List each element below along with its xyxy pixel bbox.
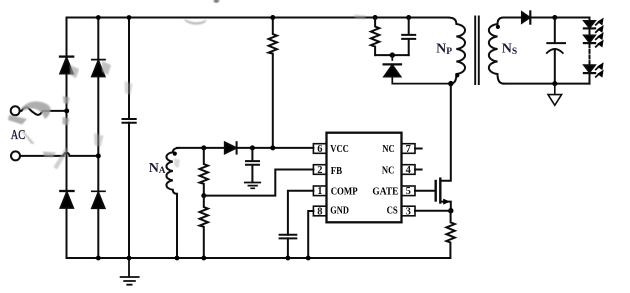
fuse F1 squiggle [20, 107, 67, 115]
wire VCC line (NA top to pin 6) [177, 147, 313, 149]
wire top rail (rectified bus) [67, 17, 449, 19]
transistor Q1 MOSFET channel bar [439, 179, 441, 203]
wire pin 7 stub [415, 148, 422, 150]
scan smudge top edge dash [214, 0, 220, 2]
svg-text:NP: NP [436, 42, 452, 57]
scan smudge under top rail [184, 19, 207, 25]
wire AC-N with crossover hop [20, 153, 98, 156]
wire bridge left leg [66, 18, 68, 259]
svg-text:NC: NC [382, 143, 394, 155]
pin 2 box [313, 165, 326, 175]
pin 4 box [402, 165, 416, 175]
wire bulk-cap leg [128, 18, 130, 259]
scan smudge diagonal at crossover [54, 148, 70, 170]
scan smudge right of D2 [102, 61, 111, 75]
node AC-N junction [96, 153, 101, 158]
scan smudge on left leg mid [63, 117, 70, 126]
pin 6 box [313, 144, 326, 154]
wire bridge right leg [97, 18, 99, 259]
svg-text:CS: CS [387, 205, 398, 217]
node FB divider at rail [201, 256, 206, 261]
capacitor output C (polarized) [547, 18, 565, 44]
diode clamp (vertical, cathode up) [384, 55, 451, 84]
node top rail at bridge right [96, 15, 101, 20]
ground secondary (open triangle) [548, 84, 562, 106]
resistor FB divider upper [200, 148, 208, 196]
node VCC at divider [201, 145, 206, 150]
scan smudge streak through AC [21, 130, 35, 144]
wire output top [530, 17, 589, 19]
scan smudge on rail near snubber [354, 15, 366, 20]
wire LED string column [589, 18, 591, 45]
wire bottom rail (primary ground bus) [67, 257, 451, 259]
wire COMP route (pin 1 to comp cap) [288, 191, 314, 235]
wire FB route (divider to pin 2) [204, 170, 314, 196]
node AC-L junction [64, 108, 69, 113]
node FB divider junction [201, 193, 206, 198]
winding NS secondary coil [489, 18, 504, 84]
svg-text:COMP: COMP [331, 186, 358, 198]
op-amp U1 controller IC body [327, 133, 402, 223]
terminal AC line input N [11, 151, 20, 160]
node COMP at rail [286, 256, 291, 261]
wire secondary top to output diode [504, 17, 522, 19]
resistor CS sense [446, 211, 454, 258]
node bottom rail at bridge right [96, 256, 101, 261]
pin 5 box [402, 186, 416, 196]
svg-text:5: 5 [406, 186, 411, 197]
node NA bottom at rail [175, 256, 180, 261]
diode bridge D3 (bottom-left) [60, 191, 73, 208]
winding NP primary coil [448, 18, 465, 84]
svg-text:7: 7 [406, 144, 411, 155]
svg-text:GND: GND [330, 204, 349, 216]
capacitor VCC C [246, 148, 259, 182]
svg-text:NS: NS [502, 42, 517, 57]
node bottom rail at bulk cap [127, 256, 132, 261]
LED D6 emission arrows [596, 36, 600, 39]
svg-text:6: 6 [317, 144, 322, 155]
transistor Q1 source connection with arrow [441, 202, 451, 211]
svg-text:NA: NA [149, 161, 166, 176]
node NP phase dot [455, 73, 459, 77]
diode bridge D1 (top-left) [60, 57, 73, 74]
capacitor bulk C (input) [123, 119, 136, 123]
resistor snubber [371, 18, 379, 56]
winding NA auxiliary coil [166, 148, 179, 258]
wire output bottom [504, 83, 590, 85]
wire GND route (pin 8 down to rail) [308, 211, 313, 258]
diode bridge D4 (bottom-right) [92, 191, 105, 208]
svg-text:2: 2 [317, 165, 322, 176]
node top rail at bulk cap [127, 15, 132, 20]
node CS junction [448, 208, 453, 213]
svg-text:FB: FB [331, 165, 343, 177]
node VCC at cap [250, 145, 255, 150]
pin 1 box [313, 186, 326, 196]
scan smudge on neutral wire [43, 152, 56, 158]
LED D7 emission arrows [596, 66, 600, 69]
pin 7 box [402, 144, 416, 154]
scan smudge on left leg upper [63, 96, 70, 104]
svg-text:3: 3 [406, 206, 411, 217]
node output cap bottom [552, 81, 557, 86]
svg-text:GATE: GATE [372, 186, 398, 198]
svg-text:4: 4 [406, 165, 412, 176]
node VCC at startup R [270, 145, 275, 150]
node primary bottom junction [448, 81, 453, 86]
transistor Q1 MOSFET gate bar [435, 181, 437, 201]
node snubber R at rail [373, 15, 378, 20]
scan smudge right of D1 [70, 65, 79, 78]
LED D7 [584, 65, 595, 73]
scan smudge on NA leg [174, 158, 180, 168]
scan smudge on right leg [94, 133, 104, 147]
svg-text:NC: NC [382, 165, 394, 177]
pin 3 box [402, 206, 416, 216]
scan smudge below terminal 1 [8, 115, 27, 125]
wire pin 4 stub [415, 169, 422, 171]
scan smudge on cap leg [125, 81, 133, 95]
LED D6 [584, 35, 595, 43]
resistor FB divider lower [200, 196, 208, 258]
node NA phase dot [173, 152, 177, 156]
svg-text:1: 1 [317, 186, 322, 197]
node snubber C at rail [406, 15, 411, 20]
resistor startup R (top rail to VCC) [269, 18, 277, 148]
terminal AC line input L [11, 106, 20, 115]
ground VCC cap GND symbol [245, 183, 260, 189]
wire COMP cap to rail [287, 238, 289, 258]
diode output rectifier [522, 11, 531, 23]
svg-text:AC: AC [11, 126, 25, 142]
wire pin 3 CS stub [415, 210, 451, 212]
transformer core lines [475, 17, 479, 85]
node output cap top [552, 15, 557, 20]
pin 8 box [313, 206, 326, 216]
capacitor snubber [402, 18, 415, 56]
node NS phase dot [496, 25, 500, 29]
LED D5 [584, 21, 595, 29]
LED D5 emission arrows [596, 22, 600, 25]
capacitor COMP C [280, 235, 297, 239]
scan smudge arc over fuse [21, 101, 51, 119]
node GND at rail [306, 256, 311, 261]
node startup R at top rail [270, 15, 275, 20]
transistor Q1 drain connection [441, 84, 451, 181]
diode bridge D2 (top-right) [92, 60, 105, 77]
svg-text:8: 8 [317, 206, 322, 217]
wire pin 5 GATE stub [415, 190, 435, 192]
node snubber mid [390, 52, 395, 57]
diode VCC rectifier (horizontal) [225, 142, 237, 153]
svg-text:VCC: VCC [330, 143, 349, 155]
wire snubber bottom link [375, 54, 409, 56]
ground primary GND symbol [121, 258, 139, 285]
